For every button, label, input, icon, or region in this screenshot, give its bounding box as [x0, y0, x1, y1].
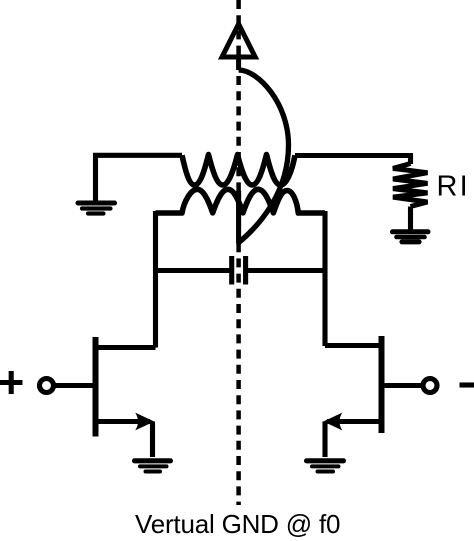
svg-text:RI: RI	[437, 171, 470, 203]
svg-text:Vertual GND @ f0: Vertual GND @ f0	[135, 509, 340, 539]
